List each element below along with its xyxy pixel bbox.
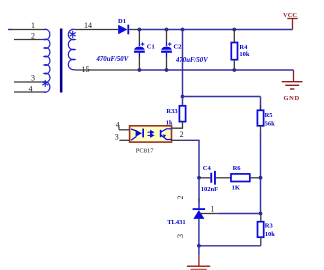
svg-text:1: 1 [211, 204, 215, 213]
junction dots top rail [138, 28, 142, 32]
wire C4 node down to TL431 [198, 178, 200, 203]
diode D1 [118, 18, 139, 34]
svg-text:R3: R3 [265, 222, 274, 229]
wire TL431 cathode to right rail [201, 213, 261, 215]
svg-text:15: 15 [82, 65, 90, 74]
transformer T1 primary pin 1 wire [8, 21, 46, 30]
wire right rail R5 to R6 junction [260, 131, 262, 178]
node junction TL431 line / right rail [259, 212, 263, 216]
transformer T1 primary pin 4 wire [14, 85, 46, 94]
svg-text:1K: 1K [232, 185, 240, 192]
svg-text:PC817: PC817 [136, 148, 154, 155]
optocoupler pin 4 stub [116, 120, 130, 129]
svg-text:C4: C4 [203, 165, 212, 172]
svg-text:GND: GND [284, 95, 300, 102]
optocoupler LED [131, 129, 144, 141]
optocoupler pin 3 stub [115, 132, 130, 141]
resistor R6 [231, 165, 261, 192]
transformer T1 secondary pin 14 wire [75, 21, 119, 30]
capacitor C4 [199, 165, 231, 193]
svg-text:10k: 10k [239, 51, 250, 58]
svg-text:470uF/50V: 470uF/50V [175, 57, 208, 64]
svg-text:R33: R33 [166, 108, 178, 115]
node junction at R33 branch [181, 95, 185, 99]
optocoupler pin 2 wire [172, 130, 185, 141]
svg-text:56k: 56k [265, 120, 276, 127]
optocoupler phototransistor [160, 129, 172, 140]
ground symbol (bottom) [187, 246, 210, 270]
capacitor C2 [161, 30, 181, 71]
svg-text:102nF: 102nF [201, 186, 218, 193]
svg-text:TL431: TL431 [167, 219, 185, 226]
transformer T1 secondary winding [68, 29, 74, 69]
optocoupler light arrows [148, 131, 154, 137]
ground GND symbol (top right) [282, 70, 303, 102]
transformer T1 primary pin 3 wire [14, 74, 46, 83]
resistor R5 [257, 97, 275, 132]
svg-text:C2: C2 [174, 44, 182, 51]
svg-text:470uF/50V: 470uF/50V [96, 56, 129, 63]
transformer T1 secondary pin 15 wire (to first junction, black) [75, 65, 140, 74]
junction dots bottom rail [138, 68, 142, 72]
capacitor C1 [134, 30, 155, 71]
svg-text:10k: 10k [265, 231, 276, 238]
resistor R4 [231, 30, 250, 71]
svg-text:3: 3 [176, 234, 185, 238]
svg-text:3: 3 [115, 132, 119, 141]
TL431 U2 [167, 203, 205, 246]
power VCC symbol [283, 12, 298, 30]
svg-text:VCC: VCC [283, 12, 297, 19]
node junction ground [197, 244, 201, 248]
svg-text:2: 2 [31, 32, 35, 41]
svg-text:C1: C1 [147, 44, 155, 51]
transformer T1 primary pin 2 wire [14, 32, 45, 41]
transformer T1 primary dot marker (asterisk) [42, 80, 48, 87]
svg-text:3: 3 [31, 74, 35, 83]
node junction R6/right rail [259, 176, 263, 180]
wire R3 bottom to ground node [199, 245, 261, 247]
svg-text:14: 14 [84, 21, 92, 30]
wire right rail R6 junction to TL431 junction [260, 178, 262, 214]
svg-text:R6: R6 [233, 165, 242, 172]
wire branch from top rail down (crosses bottom rail, no dot) [182, 30, 184, 97]
resistor R33 [166, 97, 186, 129]
svg-text:D1: D1 [118, 18, 126, 25]
svg-text:R4: R4 [239, 44, 248, 51]
transformer T1 primary winding [44, 29, 50, 92]
svg-text:1: 1 [31, 21, 35, 30]
svg-text:R5: R5 [265, 112, 274, 119]
svg-text:2: 2 [180, 130, 184, 139]
optocoupler U1 PC817 body [130, 126, 172, 142]
svg-text:4: 4 [116, 120, 120, 129]
node junction C4 [197, 176, 201, 180]
transformer T1 secondary dot marker (asterisk) [70, 31, 76, 38]
wire pin2 to C4 node [185, 140, 200, 178]
svg-text:2: 2 [176, 196, 185, 200]
wire top rail [139, 29, 292, 31]
svg-text:4: 4 [29, 85, 33, 94]
resistor R3 [258, 214, 276, 246]
wire from branch junction to right rail [183, 96, 261, 98]
transformer T1 core [60, 29, 63, 93]
wire bottom rail (blue portion) [139, 69, 293, 71]
